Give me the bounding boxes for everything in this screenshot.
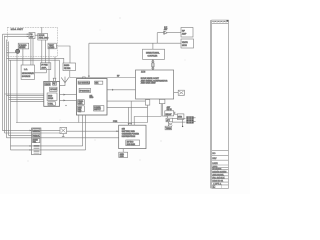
oscillator A4 L.O. <box>21 65 34 79</box>
wire B3 lower out <box>107 100 145 102</box>
svg-text:BAND: BAND <box>64 64 70 67</box>
wire B2 left pins <box>5 94 44 102</box>
connector J4 below B1 <box>145 100 149 123</box>
svg-text:IF MODULE: IF MODULE <box>80 90 91 92</box>
svg-text:SUPPLY: SUPPLY <box>94 109 101 111</box>
wire bus y149.9 <box>11 149 86 151</box>
wire bx2 stub up <box>41 27 43 33</box>
svg-text:J1 IN: J1 IN <box>141 72 146 74</box>
svg-text:DRVR: DRVR <box>48 98 54 100</box>
svg-text:ANT: ANT <box>164 28 167 31</box>
wire B3 bottom drops <box>78 115 80 123</box>
monitor box M2 <box>177 114 184 120</box>
svg-text:CKT: CKT <box>78 111 81 113</box>
load A3 TEST LOAD <box>48 43 56 49</box>
svg-text:DIRECTIONAL: DIRECTIONAL <box>146 52 160 55</box>
wire pair B1 down <box>161 104 162 117</box>
module B3 RCVR <box>77 79 108 116</box>
svg-text:MON: MON <box>182 45 187 47</box>
wire bx1-bx2 <box>35 34 38 36</box>
wire horn to R1 <box>167 32 181 34</box>
junction dot near B2 <box>65 105 66 106</box>
svg-text:SOURCE: SOURCE <box>22 76 31 78</box>
svg-text:RADAR SCHEM: RADAR SCHEM <box>212 170 226 173</box>
svg-text:PWR: PWR <box>113 121 118 123</box>
wire bx4 down <box>48 49 50 82</box>
wire bus to circulator <box>7 52 16 54</box>
svg-text:FIG. 10-2 BLK: FIG. 10-2 BLK <box>212 177 225 179</box>
wire bus y135.4 <box>9 134 32 136</box>
connector J7 on B3 top <box>82 77 85 79</box>
wire bx2 to A5 <box>42 40 46 63</box>
mixer A2 <box>18 43 29 49</box>
wire X to TB1 lower <box>172 121 185 123</box>
junction dot <box>182 126 183 127</box>
unit enclosure MDA UNIT (dashed) <box>7 27 57 56</box>
module B2 XMTR <box>44 81 60 106</box>
wire T1 stub <box>152 43 154 49</box>
svg-text:XMTR: XMTR <box>45 84 51 86</box>
title block strip <box>210 20 228 189</box>
filter A6 <box>63 63 76 71</box>
svg-text:XTAL OSC: XTAL OSC <box>39 37 49 40</box>
wire long y60.2 <box>9 60 60 81</box>
svg-text:NO: NO <box>212 153 215 155</box>
antenna E1 (fan) <box>60 77 69 86</box>
oscillator A1 RCVR XTAL OSC <box>38 34 49 41</box>
svg-text:AND DATA UNIT: AND DATA UNIT <box>141 82 157 85</box>
svg-text:AMP: AMP <box>182 32 187 35</box>
svg-text:DATE: DATE <box>212 162 218 165</box>
wire switch to M2 <box>174 113 178 115</box>
module B1 control <box>136 70 174 99</box>
wire relay to B4 <box>67 130 119 132</box>
svg-text:RELAY: RELAY <box>166 113 173 116</box>
svg-text:AMPL: AMPL <box>41 66 46 69</box>
connector J1 on B2 top <box>53 78 56 81</box>
svg-text:DET: DET <box>78 109 81 111</box>
wire bus y133 <box>5 132 61 134</box>
wire B2 top feed <box>54 57 56 78</box>
svg-text:MIXER: MIXER <box>19 47 26 49</box>
svg-text:LUG: LUG <box>120 156 124 158</box>
ground box GND <box>119 149 128 159</box>
wire PS feeds <box>3 33 30 35</box>
power supply PS1 <box>29 33 35 39</box>
svg-text:IF PRE: IF PRE <box>41 65 48 67</box>
connector J5 below B1 <box>159 99 165 103</box>
svg-text:MDA UNIT: MDA UNIT <box>11 28 24 31</box>
wire vertical to B4 J3 b <box>130 101 132 125</box>
module B4 power <box>119 125 146 148</box>
svg-text:RF AMP: RF AMP <box>50 88 57 91</box>
svg-text:PWR FL: PWR FL <box>33 135 39 137</box>
receiver R1 <box>181 28 193 38</box>
wire bus y137.8 <box>7 137 119 139</box>
wire horn drop <box>157 33 163 44</box>
svg-text:CTRL: CTRL <box>48 104 53 106</box>
svg-text:MICROWAVE: MICROWAVE <box>22 72 34 75</box>
wire RF main y43.2 <box>89 42 181 44</box>
wire bus left verticals <box>3 34 11 150</box>
wire branch right <box>163 116 168 118</box>
horn antenna E2 <box>164 27 168 34</box>
wire B3 out lower <box>107 106 148 108</box>
wire long y58.4 <box>7 58 64 63</box>
svg-text:VIDEO: VIDEO <box>78 101 84 103</box>
wire load to right <box>56 46 70 63</box>
wire arrow into B3 <box>88 43 90 78</box>
svg-text:COUPLER: COUPLER <box>148 56 158 58</box>
svg-text:REV: REV <box>212 158 217 160</box>
wire vertical to B4 J3 a <box>128 107 130 125</box>
wire B1 to mixer M1 <box>174 92 178 94</box>
svg-text:DIAG NO 31: DIAG NO 31 <box>212 180 223 183</box>
connector chain J2 <box>152 59 154 70</box>
connector J3 on B4 top <box>128 123 132 125</box>
svg-text:AN/A MODEL: AN/A MODEL <box>212 173 224 176</box>
svg-text:L.O.: L.O. <box>24 69 28 71</box>
svg-text:BUS BAR: BUS BAR <box>127 143 136 146</box>
svg-text:TERM: TERM <box>166 128 172 130</box>
wire bxG to bxH <box>35 70 47 73</box>
mixer M1 right of B1 <box>178 90 184 95</box>
wire B3 to B1 <box>107 89 136 91</box>
receiver R2 <box>181 39 194 48</box>
wire box to TB1 upper <box>173 118 186 120</box>
wire bus y130.4 <box>3 129 61 131</box>
wire bx1 drops <box>31 39 33 66</box>
terminal board TB1 (dark cluster) <box>187 117 196 124</box>
wire A6 to B1 <box>70 71 136 78</box>
wire mixer column <box>22 49 24 65</box>
coupler T1 <box>143 49 165 59</box>
circulator CR1 <box>16 49 20 122</box>
specks <box>28 18 186 162</box>
amplifier A5 <box>41 63 51 70</box>
wire atten chain down <box>167 122 169 126</box>
svg-text:1 OF 2 △: 1 OF 2 △ <box>213 183 221 186</box>
wire M2 down <box>182 119 184 126</box>
wire bus y145.9 <box>11 145 83 147</box>
wire branch to B4 <box>134 117 161 126</box>
wire bus y122.5 <box>16 122 147 124</box>
svg-text:PNL: PNL <box>33 141 36 143</box>
switch S1 <box>165 106 174 116</box>
svg-text:DISTRIBUTION: DISTRIBUTION <box>122 136 136 138</box>
relay K1 <box>60 127 67 136</box>
svg-text:FILTER: FILTER <box>64 68 71 70</box>
svg-text:LO MODULE: LO MODULE <box>79 83 91 85</box>
filter stack FL1-FL5 <box>30 128 41 155</box>
attenuator AT1 <box>165 118 172 130</box>
wire B2 to B3 <box>60 94 77 96</box>
svg-text:LOAD: LOAD <box>49 46 55 49</box>
svg-text:XMTR: XMTR <box>182 42 188 44</box>
